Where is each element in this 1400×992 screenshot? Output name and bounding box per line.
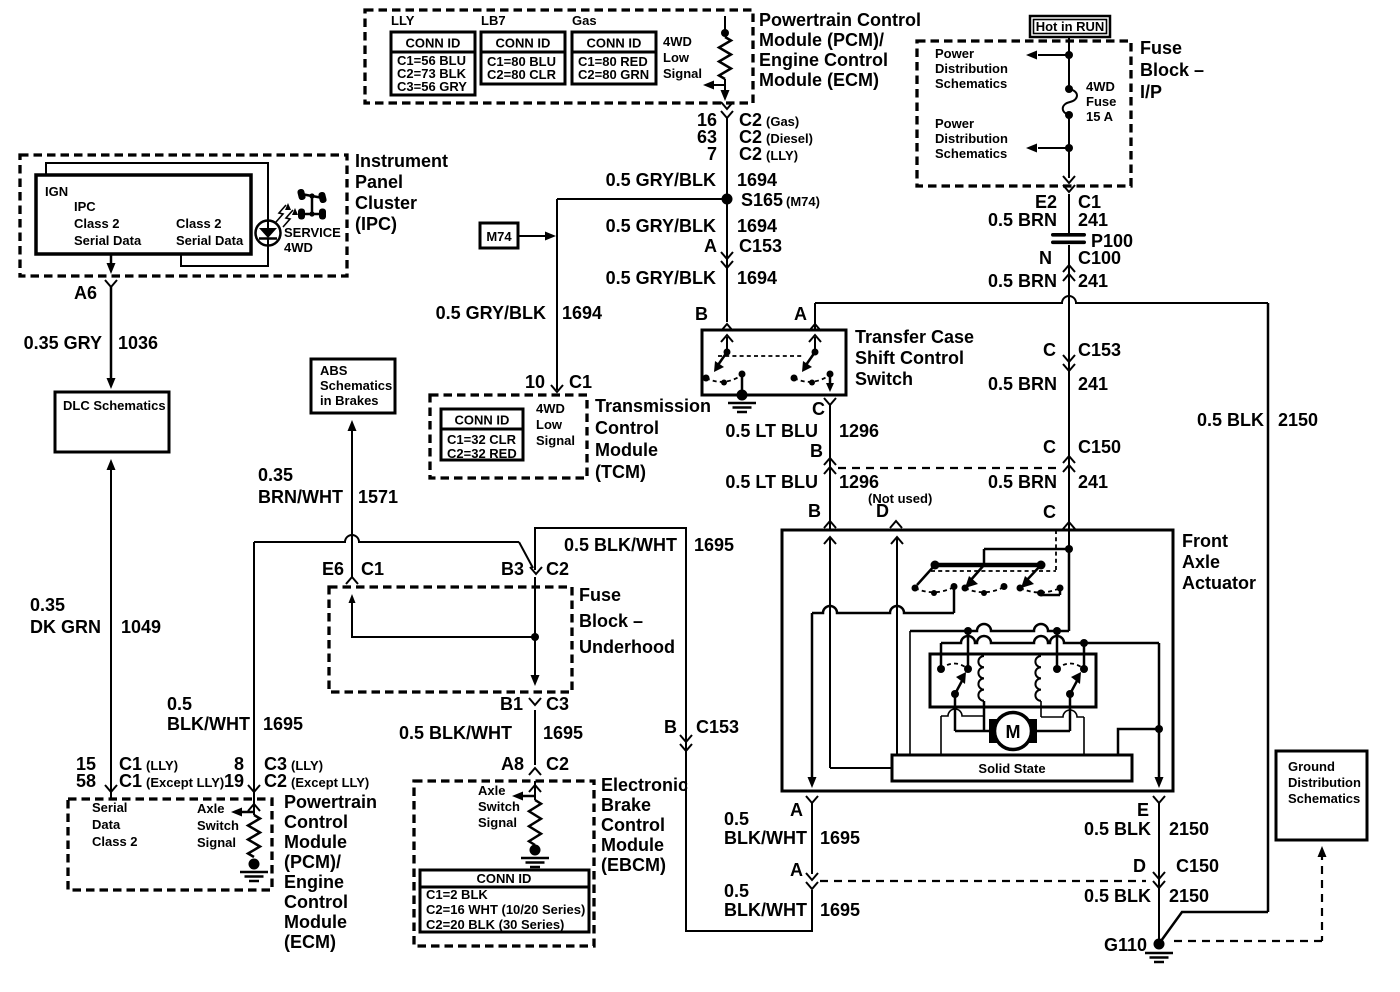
LED indicator SERVICE 4WD	[256, 221, 281, 246]
svg-text:Data: Data	[92, 817, 121, 832]
wire selector right contact to coil	[1038, 588, 1061, 597]
svg-text:1695: 1695	[820, 828, 860, 848]
svg-text:C3: C3	[546, 694, 569, 714]
label Powertrain Control Module (PCM)/Engine Control Module (ECM) top	[759, 10, 921, 90]
label 4WD Fuse 15 A	[1086, 79, 1116, 124]
svg-text:241: 241	[1078, 210, 1108, 230]
wire lower bus (to pin E)	[941, 636, 1159, 669]
svg-text:C2=32 RED: C2=32 RED	[447, 446, 517, 461]
svg-text:1571: 1571	[358, 487, 398, 507]
module box Fuse Block I/P	[917, 41, 1131, 186]
svg-text:BLK/WHT: BLK/WHT	[724, 828, 807, 848]
svg-text:2150: 2150	[1169, 819, 1209, 839]
svg-text:Schematics: Schematics	[935, 76, 1007, 91]
svg-text:C153: C153	[696, 717, 739, 737]
svg-text:E6: E6	[322, 559, 344, 579]
connector C1 pin 10 (TCM)	[525, 372, 592, 392]
label ABS Schematics in Brakes box	[311, 359, 395, 413]
svg-text:ABS: ABS	[320, 363, 348, 378]
connector C1 pin E6	[322, 559, 384, 584]
svg-text:Actuator: Actuator	[1182, 573, 1256, 593]
resistor (PCM axle switch signal)	[248, 815, 260, 857]
svg-text:SERVICE: SERVICE	[284, 225, 341, 240]
connector table LB7	[481, 32, 565, 84]
svg-text:Power: Power	[935, 46, 974, 61]
svg-text:C1: C1	[361, 559, 384, 579]
svg-text:C1=2 BLK: C1=2 BLK	[426, 887, 488, 902]
wire arrow to PCM internals	[703, 81, 725, 90]
label 0.5 BRN 241 (below C153)	[988, 374, 1108, 394]
label 0.5 BLK/WHT 1695 (to EBCM)	[399, 723, 583, 743]
svg-text:D: D	[1133, 856, 1146, 876]
svg-text:N: N	[1039, 248, 1052, 268]
svg-text:Distribution: Distribution	[935, 131, 1008, 146]
wire fuse block underhood internal	[349, 577, 540, 686]
svg-text:C: C	[1043, 437, 1056, 457]
svg-text:Front: Front	[1182, 531, 1228, 551]
pin C of transfer case switch	[812, 398, 836, 419]
svg-text:1695: 1695	[263, 714, 303, 734]
label Power Distribution Schematics (upper)	[935, 46, 1008, 91]
svg-text:Panel: Panel	[355, 172, 403, 192]
svg-text:Schematics: Schematics	[1288, 791, 1360, 806]
svg-text:I/P: I/P	[1140, 82, 1162, 102]
svg-text:Signal: Signal	[478, 815, 517, 830]
svg-text:4WD: 4WD	[663, 34, 692, 49]
wire 1695 from PCM to fuse block underhood	[254, 535, 533, 795]
svg-text:0.5 GRY/BLK: 0.5 GRY/BLK	[606, 268, 716, 288]
svg-text:(EBCM): (EBCM)	[601, 855, 666, 875]
wire 1296 LT BLU	[829, 405, 831, 530]
svg-text:0.5 BLK: 0.5 BLK	[1084, 886, 1151, 906]
label 0.5 LT BLU 1296 (lower)	[725, 472, 879, 492]
arrow down out of PCM	[721, 90, 730, 101]
svg-text:C2=80 CLR: C2=80 CLR	[487, 67, 557, 82]
relay contact (right)	[1053, 664, 1088, 699]
svg-text:0.5: 0.5	[724, 809, 749, 829]
label 4WD Low Signal (PCM)	[663, 34, 702, 81]
svg-text:Block –: Block –	[579, 611, 643, 631]
relay box	[930, 654, 1096, 707]
wire IPC serial data output	[107, 254, 116, 274]
svg-text:Ground: Ground	[1288, 759, 1335, 774]
label Transmission Control Module (TCM)	[595, 396, 711, 482]
svg-text:0.5 BLK/WHT: 0.5 BLK/WHT	[399, 723, 512, 743]
selector contact arm (right)	[1017, 565, 1064, 596]
svg-text:Powertrain: Powertrain	[284, 792, 377, 812]
label 0.5 GRY/BLK 1694 (below S165)	[606, 216, 777, 236]
svg-text:Axle: Axle	[197, 801, 224, 816]
svg-text:0.5 LT BLU: 0.5 LT BLU	[725, 421, 818, 441]
label 0.5 BLK 2150 (pin E)	[1084, 819, 1209, 839]
svg-text:Schematics: Schematics	[935, 146, 1007, 161]
svg-text:LLY: LLY	[391, 13, 415, 28]
connector C150 pin D	[1133, 856, 1219, 888]
svg-text:C2: C2	[264, 771, 287, 791]
svg-text:0.5 GRY/BLK: 0.5 GRY/BLK	[606, 170, 716, 190]
svg-text:Axle: Axle	[478, 783, 505, 798]
wire left coil to motor	[983, 701, 986, 731]
wire 1036 GRY	[107, 287, 116, 389]
svg-text:CONN ID: CONN ID	[496, 36, 551, 51]
svg-text:15 A: 15 A	[1086, 109, 1114, 124]
wire axle switch signal (EBCM internal)	[512, 781, 541, 801]
label 0.5 BLK 2150 (right)	[1197, 410, 1318, 430]
svg-text:241: 241	[1078, 472, 1108, 492]
svg-text:M74: M74	[486, 229, 512, 244]
splice S165	[722, 190, 820, 210]
svg-text:E2: E2	[1035, 192, 1057, 212]
svg-text:Switch: Switch	[197, 818, 239, 833]
svg-text:4WD: 4WD	[284, 240, 313, 255]
solid state module	[892, 755, 1132, 781]
svg-text:Low: Low	[663, 50, 690, 65]
svg-text:A8: A8	[501, 754, 524, 774]
svg-text:Control: Control	[284, 812, 348, 832]
svg-text:1694: 1694	[737, 268, 777, 288]
svg-text:1695: 1695	[543, 723, 583, 743]
wire 1049 DK GRN	[107, 459, 116, 800]
svg-text:Distribution: Distribution	[1288, 775, 1361, 790]
svg-text:Fuse: Fuse	[1140, 38, 1182, 58]
svg-text:0.5 BLK: 0.5 BLK	[1197, 410, 1264, 430]
svg-text:Distribution: Distribution	[935, 61, 1008, 76]
LED light rays	[276, 203, 298, 227]
svg-text:A6: A6	[74, 283, 97, 303]
ground (PCM internal)	[240, 859, 268, 882]
connector C153 pin B	[664, 717, 739, 751]
front axle actuator box	[782, 530, 1173, 791]
svg-text:C2: C2	[546, 559, 569, 579]
module box PCM/ECM (bottom)	[68, 799, 272, 890]
dashed ground distribution link	[1174, 846, 1327, 941]
wire axle switch signal (PCM internal)	[231, 795, 260, 817]
svg-text:Transmission: Transmission	[595, 396, 711, 416]
svg-text:(Except LLY): (Except LLY)	[146, 775, 224, 790]
grommet P100	[1051, 231, 1133, 251]
wire 2150 BLK from pin E	[1158, 803, 1160, 941]
connector chevrons at PCM output	[721, 102, 733, 118]
wire relay contact drops	[968, 631, 1084, 669]
svg-text:10: 10	[525, 372, 545, 392]
svg-text:0.35 GRY: 0.35 GRY	[24, 333, 102, 353]
svg-text:D: D	[876, 501, 889, 521]
svg-text:Serial Data: Serial Data	[74, 233, 142, 248]
wire pin D inside actuator	[891, 537, 903, 755]
wire from Hot in RUN	[1068, 38, 1070, 88]
svg-text:Engine Control: Engine Control	[759, 50, 888, 70]
svg-text:Module: Module	[284, 912, 347, 932]
svg-text:Switch: Switch	[855, 369, 913, 389]
ground (EBCM internal)	[521, 845, 549, 868]
switch contact A (right)	[791, 335, 835, 392]
module box TCM	[430, 395, 587, 478]
label Electronic Brake Control Module (EBCM)	[601, 775, 688, 875]
selector contact arm (middle)	[962, 565, 1008, 596]
wire IGN to service lamp	[46, 163, 268, 221]
svg-text:Serial Data: Serial Data	[176, 233, 244, 248]
label 0.5 BRN 241	[988, 210, 1108, 230]
svg-text:Shift Control: Shift Control	[855, 348, 964, 368]
svg-text:0.5 BLK: 0.5 BLK	[1084, 819, 1151, 839]
svg-text:(M74): (M74)	[786, 194, 820, 209]
svg-text:DK GRN: DK GRN	[30, 617, 101, 637]
svg-text:19: 19	[224, 771, 244, 791]
label Class 2 Serial Data (second)	[176, 216, 244, 248]
label Transfer Case Shift Control Switch	[855, 327, 974, 389]
svg-text:Module: Module	[601, 835, 664, 855]
resistor 4WD low signal pull-up (PCM internal)	[719, 16, 731, 95]
svg-text:S165: S165	[741, 190, 783, 210]
transfer case shift control switch box	[702, 330, 846, 395]
svg-text:C: C	[1043, 502, 1056, 522]
svg-text:Cluster: Cluster	[355, 193, 417, 213]
svg-text:CONN ID: CONN ID	[406, 36, 461, 51]
wire service lamp return	[181, 245, 268, 266]
selector contact arm (left)	[912, 565, 958, 596]
svg-text:241: 241	[1078, 374, 1108, 394]
svg-text:0.5: 0.5	[724, 881, 749, 901]
wire 1695 to fuse block B3 via C153 B	[535, 528, 812, 931]
connector table LLY	[391, 32, 475, 95]
svg-text:1695: 1695	[820, 900, 860, 920]
svg-text:Powertrain Control: Powertrain Control	[759, 10, 921, 30]
label 0.35 BRN/WHT 1571	[258, 465, 398, 507]
label 0.5 LT BLU 1296	[725, 421, 879, 441]
svg-text:0.35: 0.35	[258, 465, 293, 485]
wire selector left contact to pin A net	[808, 587, 955, 788]
svg-text:(IPC): (IPC)	[355, 214, 397, 234]
svg-text:C100: C100	[1078, 248, 1121, 268]
svg-text:C2=16 WHT (10/20 Series): C2=16 WHT (10/20 Series)	[426, 902, 585, 917]
dashed link A to C150 D	[820, 880, 1146, 882]
svg-text:Gas: Gas	[572, 13, 597, 28]
selector common bar	[931, 549, 1046, 570]
ground G110	[1104, 935, 1173, 962]
svg-text:Class 2: Class 2	[92, 834, 138, 849]
connector C153 pin C	[1043, 340, 1121, 371]
svg-text:C2=80 GRN: C2=80 GRN	[578, 67, 649, 82]
svg-text:IPC: IPC	[74, 199, 96, 214]
wire 1571 BRN/WHT	[348, 420, 357, 578]
svg-text:4WD: 4WD	[536, 401, 565, 416]
svg-text:in Brakes: in Brakes	[320, 393, 379, 408]
svg-text:C150: C150	[1176, 856, 1219, 876]
motor M	[989, 713, 1037, 750]
svg-text:Module (ECM): Module (ECM)	[759, 70, 879, 90]
svg-text:B: B	[810, 441, 823, 461]
svg-text:Fuse: Fuse	[1086, 94, 1116, 109]
label 0.5 GRY/BLK 1694 (above switch)	[606, 268, 777, 288]
connector C2 pin A8	[501, 754, 569, 775]
svg-text:4WD: 4WD	[1086, 79, 1115, 94]
connector pin A lower	[790, 860, 818, 889]
label 0.5 BLK/WHT 1695 (lower)	[724, 881, 860, 920]
svg-text:2150: 2150	[1169, 886, 1209, 906]
dashed selector position link	[931, 530, 1056, 571]
svg-text:7: 7	[707, 144, 717, 164]
wire pin E inside actuator	[1118, 643, 1164, 788]
connector table TCM	[441, 409, 523, 461]
svg-text:C153: C153	[739, 236, 782, 256]
svg-text:Control: Control	[595, 418, 659, 438]
svg-text:(Gas): (Gas)	[766, 114, 799, 129]
label Instrument Panel Cluster (IPC)	[355, 151, 448, 234]
pin B of front axle actuator	[808, 501, 836, 528]
svg-text:Underhood: Underhood	[579, 637, 675, 657]
svg-text:Block –: Block –	[1140, 60, 1204, 80]
module box PCM/ECM (top)	[365, 10, 753, 103]
svg-text:Instrument: Instrument	[355, 151, 448, 171]
module box Fuse Block Underhood	[329, 587, 572, 692]
wire right armature to motor	[1037, 694, 1070, 731]
connector C1 pins 15/58	[76, 754, 224, 792]
connector C1 pin E2	[1035, 192, 1101, 212]
wire left armature to motor	[955, 694, 989, 731]
label Powertrain Control Module (PCM)/Engine Control Module (ECM) bottom	[284, 792, 377, 952]
svg-text:B3: B3	[501, 559, 524, 579]
label M74 box	[480, 223, 518, 248]
wire solid state to left coil	[941, 709, 984, 755]
label Fuse Block - I/P	[1140, 38, 1204, 102]
svg-text:C2=20 BLK (30 Series): C2=20 BLK (30 Series)	[426, 917, 564, 932]
svg-text:C: C	[1043, 340, 1056, 360]
pin numbers 16/63/7 and connectors C2	[697, 110, 813, 164]
label Front Axle Actuator	[1182, 531, 1256, 593]
svg-text:C1: C1	[119, 771, 142, 791]
label 0.35 DK GRN 1049	[30, 595, 161, 637]
svg-text:C150: C150	[1078, 437, 1121, 457]
mechanical link (dashed) between switch arms	[718, 355, 804, 357]
ground (switch internal)	[728, 390, 756, 413]
svg-text:58: 58	[76, 771, 96, 791]
svg-text:1694: 1694	[737, 216, 777, 236]
svg-text:BRN/WHT: BRN/WHT	[258, 487, 343, 507]
svg-text:(Except LLY): (Except LLY)	[291, 775, 369, 790]
svg-text:0.5 BRN: 0.5 BRN	[988, 472, 1057, 492]
label Ground Distribution Schematics box	[1276, 751, 1367, 840]
connector C150 pin C	[1043, 437, 1121, 472]
connector C150 pin B	[810, 441, 836, 474]
node to power distribution (lower)	[1026, 144, 1073, 153]
svg-text:IGN: IGN	[45, 184, 68, 199]
label Power Distribution Schematics (lower)	[935, 116, 1008, 161]
svg-text:C1=32 CLR: C1=32 CLR	[447, 432, 517, 447]
label DLC Schematics box	[55, 392, 169, 452]
svg-text:0.5 GRY/BLK: 0.5 GRY/BLK	[606, 216, 716, 236]
svg-text:DLC Schematics: DLC Schematics	[63, 398, 166, 413]
4WD drivetrain icon	[297, 188, 327, 219]
wire pin C inside actuator	[984, 530, 1073, 631]
svg-text:M: M	[1006, 722, 1021, 742]
switch contact B (left)	[703, 335, 746, 395]
svg-text:(LLY): (LLY)	[146, 758, 178, 773]
label Axle Switch Signal (PCM)	[197, 801, 239, 850]
svg-text:1694: 1694	[562, 303, 602, 323]
svg-text:Engine: Engine	[284, 872, 344, 892]
svg-text:1296: 1296	[839, 472, 879, 492]
svg-text:(LLY): (LLY)	[766, 148, 798, 163]
svg-text:0.5 BRN: 0.5 BRN	[988, 210, 1057, 230]
label 0.5 BLK/WHT 1695 (PCM riser)	[167, 694, 303, 734]
svg-text:0.35: 0.35	[30, 595, 65, 615]
svg-text:Switch: Switch	[478, 799, 520, 814]
svg-text:BLK/WHT: BLK/WHT	[167, 714, 250, 734]
svg-text:Fuse: Fuse	[579, 585, 621, 605]
wire branch from S165 to TCM	[557, 199, 727, 390]
label Fuse Block - Underhood	[579, 585, 675, 657]
svg-text:B: B	[664, 717, 677, 737]
connector pin A6	[74, 280, 117, 303]
svg-text:C1: C1	[1078, 192, 1101, 212]
svg-text:A: A	[704, 236, 717, 256]
svg-text:C1: C1	[569, 372, 592, 392]
IGN box (IPC internal)	[36, 175, 251, 254]
label 4WD Low Signal (TCM)	[536, 401, 575, 448]
label SERVICE 4WD	[284, 225, 341, 255]
svg-text:Class 2: Class 2	[176, 216, 222, 231]
node to power distribution (upper)	[1026, 51, 1073, 60]
svg-text:Signal: Signal	[663, 66, 702, 81]
svg-text:Module: Module	[284, 832, 347, 852]
svg-text:B: B	[808, 501, 821, 521]
svg-text:LB7: LB7	[481, 13, 506, 28]
pin A of transfer case switch	[794, 304, 821, 331]
wire 2150 BLK right side vertical	[1161, 303, 1268, 941]
svg-text:(Diesel): (Diesel)	[766, 131, 813, 146]
svg-text:0.5: 0.5	[167, 694, 192, 714]
wire 241 BRN (fuse block to P100)	[1068, 194, 1070, 234]
svg-text:241: 241	[1078, 271, 1108, 291]
connector table Gas	[572, 32, 656, 84]
wire 1695 BLK/WHT from pin A	[811, 803, 813, 874]
wire upper bus (C feed to relay contacts)	[910, 624, 1069, 755]
fuse 4WD 15A	[1063, 85, 1077, 119]
pin B of transfer case switch	[695, 304, 733, 331]
connector C3 pin B1	[500, 694, 569, 714]
svg-text:C2: C2	[739, 144, 762, 164]
svg-text:Hot in RUN: Hot in RUN	[1036, 19, 1105, 34]
svg-text:0.5 BRN: 0.5 BRN	[988, 271, 1057, 291]
svg-text:Control: Control	[284, 892, 348, 912]
label 0.5 BLK/WHT 1695 (pin A)	[724, 809, 860, 848]
label IPC Class 2 Serial Data	[74, 199, 142, 248]
svg-text:0.5 GRY/BLK: 0.5 GRY/BLK	[436, 303, 546, 323]
wire below fuse	[1068, 115, 1070, 178]
label 0.5 BLK 2150 (below C150)	[1084, 886, 1209, 906]
label 0.5 GRY/BLK 1694 (above S165)	[606, 170, 777, 190]
svg-text:Module: Module	[595, 440, 658, 460]
coil (right)	[1035, 656, 1041, 701]
label Serial Data Class 2	[92, 800, 138, 849]
pin C of front axle actuator	[1043, 502, 1075, 529]
label Hot in RUN	[1030, 16, 1110, 37]
svg-text:C: C	[812, 399, 825, 419]
svg-text:Power: Power	[935, 116, 974, 131]
wire from switch pin A to ground net	[815, 296, 1268, 330]
svg-text:CONN ID: CONN ID	[477, 871, 532, 886]
svg-text:B: B	[695, 304, 708, 324]
module box EBCM	[414, 781, 594, 946]
svg-text:Signal: Signal	[197, 835, 236, 850]
svg-text:CONN ID: CONN ID	[455, 413, 510, 428]
connector chevrons leaving fuse block	[1063, 176, 1075, 192]
svg-text:Schematics: Schematics	[320, 378, 392, 393]
module box Instrument Panel Cluster	[20, 155, 347, 276]
svg-text:1036: 1036	[118, 333, 158, 353]
wire 1695 to EBCM	[534, 710, 536, 765]
svg-text:Signal: Signal	[536, 433, 575, 448]
